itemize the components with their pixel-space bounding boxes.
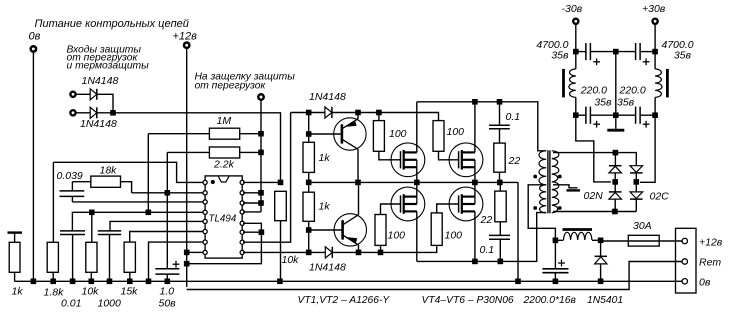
wire VT6 source to lower bus [474,211,476,261]
svg-text:100: 100 [388,230,406,242]
svg-text:10k: 10k [82,286,100,298]
svg-text:1N4148: 1N4148 [309,91,346,103]
wire pin7 line to ground [149,242,203,281]
node ground bus junction [89,279,95,285]
wire VT3 source to mid rail [416,167,418,182]
wire 1M left drop to pin4 line [147,134,149,213]
svg-text:Питание контрольных цепей: Питание контрольных цепей [35,18,189,30]
wire ground rail mid [309,181,518,183]
node ground bus junction [553,279,559,285]
pin 13 TL494 [240,210,244,214]
fuse FU1 30A [601,240,629,242]
pin 5 TL494 [203,219,207,223]
wire rectifier feed D1 column [614,153,616,166]
wire latch vertical [260,100,262,212]
wire 0v vertical to ground bus [32,52,34,281]
resistor 100 lower-right gate [431,213,442,246]
pin 12 TL494 [240,221,244,225]
terminal protection input 2 [70,110,75,115]
wire pin12 elbow to +12 feed [187,223,262,263]
wire diode2 to junction [97,112,113,114]
wire VT1 collector to ground rail [357,149,359,182]
svg-text:35в: 35в [594,97,612,109]
node center cap rail bottom [613,112,619,118]
wire VT4 drain to top rail [474,102,476,153]
pin 1 TL494 [203,180,207,184]
wire pin6 line [130,232,203,243]
node pin9 line VT2 base drop [306,250,312,256]
svg-text:+12в: +12в [173,31,198,43]
op-amp U1 TL494 body [205,176,242,258]
node 22 upper bottom [497,180,503,186]
resistor 22 lower snubber [499,182,501,191]
wire pin3 line [72,201,202,203]
wire secondary top to rectifier [553,152,615,154]
svg-text:1N4148: 1N4148 [309,262,346,274]
node VT2 emitter [356,250,362,256]
resistor 1.8k [47,242,58,272]
svg-text:35в: 35в [617,97,635,109]
wire VT5 drain to mid rail [416,182,418,196]
node phasing dot primary upper [533,175,537,179]
wire feedback top line to pin1 [53,162,202,182]
node phasing dot secondary upper [558,175,562,179]
svg-text:22: 22 [508,155,521,167]
svg-text:от перегрузок: от перегрузок [195,80,267,91]
node pin8 +12 [184,250,190,256]
pin 14 TL494 [240,201,244,205]
svg-text:18k: 18k [100,165,118,177]
wire diode1 to junction [97,94,113,113]
node 1M to pin4 [146,210,152,216]
wire +12v vertical [186,49,188,287]
node -30 4700 junction [573,49,579,55]
node VT1 base node [306,131,312,137]
wire pin11 line [243,231,261,233]
wire pin10 up to upper driver line [243,113,291,243]
capacitor 0.1 lower snubber [489,234,510,236]
wire VT5 source to lower bus [416,211,418,261]
resistor 1k lower (VT2 base) [303,192,314,221]
terminal 0v out [682,279,687,284]
diode VD4 1N4148 lower [325,247,332,258]
node 100 lower-left bottom [378,250,384,256]
capacitor 0.1 upper snubber [499,102,501,126]
diode VD6 rectifier 02N top [609,165,622,167]
wire pin13 line [243,211,261,213]
node VT3 source mid rail [414,180,420,186]
wire secondary bottom to rectifier [553,211,636,213]
svg-text:02C: 02C [650,191,670,203]
resistor 10k (pin16 pull) [275,191,287,220]
node VT4 source mid rail [472,180,478,186]
pin 9 TL494 [240,250,244,254]
svg-text:+30в: +30в [642,3,666,15]
svg-text:0.1: 0.1 [506,111,521,123]
wire lower driver line [359,245,437,252]
transistor VT2 A1266 [334,214,366,246]
capacitor 0.039 [71,182,73,191]
terminal block [676,228,697,293]
node ground bus junction [277,279,283,285]
node choke left [553,238,559,244]
wire D3 column feed [615,153,636,166]
diode VD9 rectifier 02C bottom [630,192,643,199]
terminal 0v [31,46,36,51]
node VT1 emitter [355,110,361,116]
node ground bus junction [50,279,56,285]
svg-text:0.039: 0.039 [57,170,83,182]
capacitor 220.0 left [576,114,586,116]
pin 6 TL494 [203,229,207,233]
svg-text:1.0: 1.0 [160,286,175,298]
svg-text:VT1,VT2 – A1266-Y: VT1,VT2 – A1266-Y [298,295,391,306]
svg-text:1N5401: 1N5401 [587,295,623,306]
wire 10k-bottom resistor drop [91,212,93,242]
wire choke right lead [592,239,601,241]
svg-text:1М: 1М [217,115,232,127]
pin 11 TL494 [240,230,244,234]
svg-text:0в: 0в [29,31,41,43]
terminal latch [258,94,263,99]
pin 4 TL494 [203,210,207,214]
pin 2 TL494 [203,191,207,195]
node 2.2k right [258,150,264,156]
wire pin5 line [110,221,203,231]
terminal +12v [184,43,189,48]
node pin16 10k [278,180,284,186]
svg-text:2.2k: 2.2k [213,158,235,170]
wire pin8 to +12 line [187,251,203,253]
svg-text:-30в: -30в [562,3,583,15]
svg-text:50в: 50в [159,297,177,309]
resistor 100 upper-left gate [378,113,380,121]
capacitor 1000 [98,230,121,232]
node 1M right [258,131,264,137]
wire VT2 base [309,229,343,231]
node choke right [598,238,604,244]
resistor 1M [148,133,209,135]
resistor 15k [124,242,135,272]
terminal +30v [653,19,658,24]
node phasing dot secondary lower [558,206,562,210]
wire choke left lead [555,239,563,241]
node ground bus junction [515,279,521,285]
transistor VT4 MOSFET upper-right [449,143,483,177]
diode VD1 1N4148 [76,93,90,95]
svg-text:0.1: 0.1 [480,244,495,256]
pin 16 TL494 [240,180,244,184]
svg-text:1N4148: 1N4148 [80,118,117,130]
wire VT2 collector to ground rail [358,182,360,214]
wire VT4 source to mid rail [474,167,476,182]
pin 3 TL494 [203,200,207,204]
wire gate upper-right [439,151,459,160]
svg-text:TL494: TL494 [209,214,237,225]
pin 10 TL494 [240,240,244,244]
node ground bus junction [70,279,76,285]
node 0.1 lower bottom [498,259,504,265]
wire -30 rail lower [576,97,611,181]
wire pin2 line [132,192,203,194]
svg-text:и термозащиты: и термозащиты [67,60,150,71]
node 2.2k to pin2 [165,190,171,196]
svg-text:1k: 1k [319,152,331,164]
svg-text:0в: 0в [699,277,711,289]
wire -30 rail upper [575,24,577,69]
diode VD5 1N5401 [600,240,602,256]
svg-text:35в: 35в [674,50,692,62]
resistor 22 upper snubber [494,143,505,172]
wire VT1 base [309,133,342,135]
node +30 4700 junction [652,49,658,55]
wire lower bus to primary bottom [417,213,546,262]
svg-text:1k: 1k [12,286,24,298]
svg-text:1k: 1k [319,201,331,213]
capacitor 220.0 right [616,114,636,116]
wire pin9 driver line [243,251,325,253]
svg-text:100: 100 [445,230,463,242]
node 100 upper-left top [376,110,382,116]
svg-text:30А: 30А [633,220,652,232]
node secondary bottom junction [612,209,618,215]
inductor L1 output choke [563,228,593,231]
transistor VT1 A1266 [334,118,366,150]
svg-text:0.01: 0.01 [61,297,81,309]
svg-text:1000: 1000 [98,297,122,309]
node ground bus junction [165,279,171,285]
wire pin14 line [243,202,261,204]
wire +30 rail lower [640,97,655,182]
terminal -30v [573,19,578,24]
wire Rem line [187,262,682,290]
node -30 rectifier mid [612,179,618,185]
inductor choke +30 [666,69,669,98]
transformer T1 primary winding [539,151,546,213]
pin 7 TL494 [203,240,207,244]
wire VT1 base feed drop [308,113,310,143]
node ground bus junction [146,279,152,285]
svg-text:02N: 02N [584,190,604,202]
svg-text:Rem: Rem [699,257,721,269]
svg-text:10k: 10k [282,254,300,266]
node secondary top junction [613,150,619,156]
diode VD7 rectifier 02N bottom [609,191,622,193]
wire protection line A [113,113,281,183]
wire +30 rail upper [654,24,656,69]
capacitor 0.01 [60,230,85,232]
svg-text:VT4–VT6 – P30N06: VT4–VT6 – P30N06 [422,295,514,306]
wire gate lower-left [381,204,401,215]
node ground bus junction [31,279,37,285]
node 10k top to pin4 [89,210,95,216]
resistor 100 lower-left gate [375,215,386,246]
resistor 1k leftmost with bar [8,231,23,233]
wire secondary center tap ground stub [553,185,578,188]
capacitor 2200.0x16v [554,240,556,268]
wire feedback line down to 1.8k [52,162,54,242]
node VT collectors [355,180,361,186]
node +30 rectifier mid [634,179,640,185]
node pin14 latch [258,200,264,206]
svg-text:2200.0*16в: 2200.0*16в [523,295,577,306]
transformer core [547,150,549,213]
node +12 feed [184,261,190,267]
node VT4 drain [472,99,478,105]
terminal protection input 1 [70,92,75,97]
pin 15 TL494 [240,191,244,195]
node VT6 source [472,259,478,265]
pin 8 TL494 [203,250,207,254]
resistor 100 upper-right gate [433,121,444,152]
svg-text:22: 22 [480,214,493,226]
svg-text:15k: 15k [121,286,139,298]
resistor 1k upper (VT1 base) [303,142,314,172]
wire mid rail drop to ground bus [517,182,519,281]
transistor VT5 MOSFET lower-left [391,187,425,221]
wire gate lower-right [437,204,459,213]
wire pin4 line [72,212,202,231]
terminal +12v out [682,238,687,243]
node phasing dot primary lower [533,206,537,210]
transistor VT3 MOSFET upper-left [391,143,425,177]
wire primary center tap to choke [528,185,555,241]
svg-text:220.0: 220.0 [580,85,607,97]
terminal Rem [682,259,687,264]
wire VT3 drain to top rail [416,102,418,153]
node +30 220 junction [652,112,658,118]
node line B to VT1 base feed [306,110,312,116]
wire center cap rail [615,52,617,129]
node center cap rail top [613,49,619,55]
resistor 2.2k [167,151,209,153]
transformer T1 secondary winding [552,151,559,213]
node 0.1 upper top [497,99,503,105]
transistor VT6 MOSFET lower-right [449,187,483,221]
resistor 18k [72,181,90,183]
resistor 10k bottom [86,242,97,272]
wire pin15 line [243,192,261,194]
svg-text:+12в: +12в [699,236,723,248]
wire top rail [417,102,546,151]
wire between 1k resistors [308,172,310,182]
svg-text:35в: 35в [551,50,569,62]
svg-text:1N4148: 1N4148 [82,75,119,87]
node ground bus junction [107,279,113,285]
ground symbol [607,129,624,132]
wire 2.2k drop to soft start cap [166,152,168,268]
node -30 220 junction [573,112,579,118]
ground bus [15,280,683,282]
node protection junction [110,110,116,116]
diode VD2 1N4148 [76,112,90,114]
svg-text:220.0: 220.0 [619,85,646,97]
capacitor 4700.0 right [616,51,636,53]
node VT2 base node [306,227,312,233]
wire upper driver line B [291,113,439,121]
svg-text:100: 100 [389,128,407,140]
node ground bus junction [127,279,133,285]
wire gate upper-left [379,151,401,160]
wire VT6 drain to mid rail [474,182,476,196]
capacitor 4700.0 left [576,51,586,53]
capacitor 1.0 50v electrolytic [155,268,179,270]
node ground bus junction [598,279,604,285]
node pin11 [259,229,265,235]
wire pin16 line [243,181,281,183]
svg-text:100: 100 [447,126,465,138]
diode VD8 rectifier 02C top [630,166,643,173]
node pin15 latch [258,190,264,196]
diode VD3 1N4148 upper [325,107,332,118]
wire lower 1k to VT2 base node [308,221,310,252]
inductor choke -30 [562,69,565,98]
node 1k chain mid [306,180,312,186]
